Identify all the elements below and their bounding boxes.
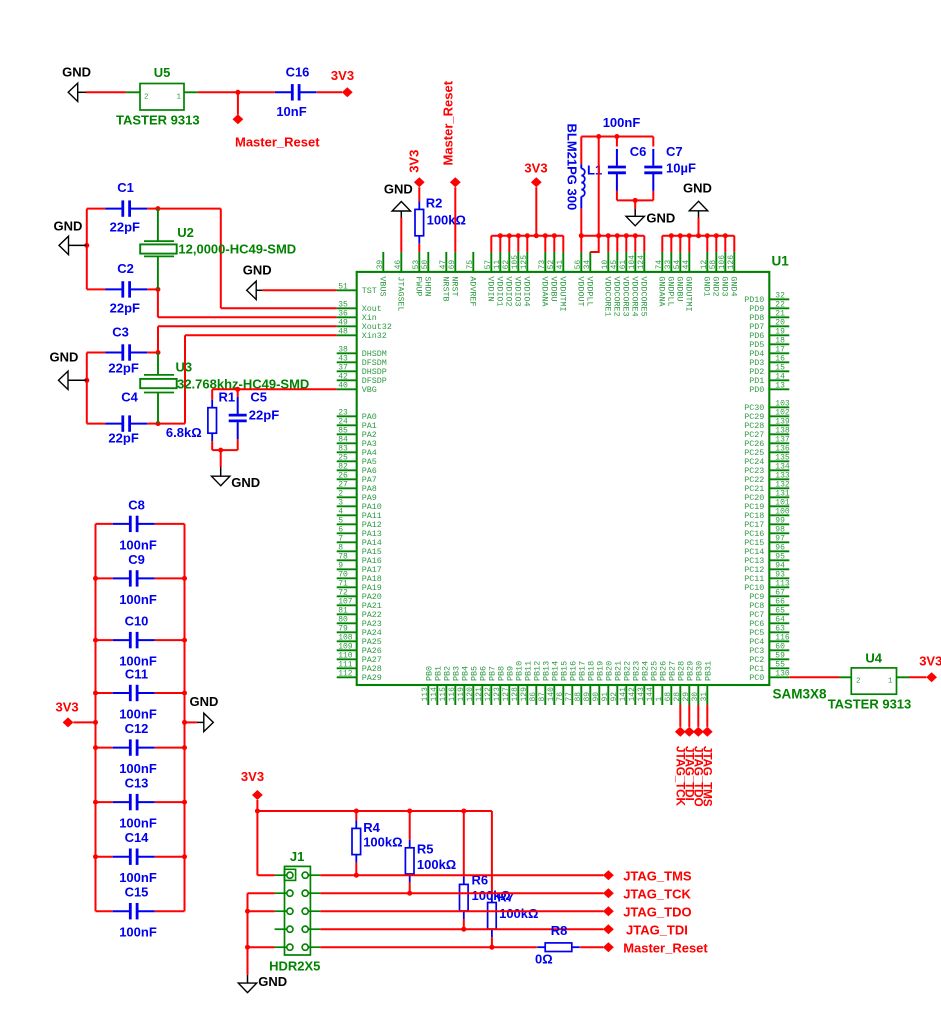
svg-text:11: 11 — [493, 260, 502, 270]
svg-text:36: 36 — [338, 309, 348, 318]
svg-text:9: 9 — [338, 561, 343, 570]
svg-text:109: 109 — [338, 642, 353, 651]
svg-text:58: 58 — [709, 260, 718, 270]
svg-text:88: 88 — [574, 692, 583, 702]
svg-text:102: 102 — [775, 408, 790, 417]
svg-text:100kΩ: 100kΩ — [363, 835, 402, 850]
svg-text:32: 32 — [775, 291, 785, 300]
svg-text:31: 31 — [700, 692, 709, 702]
svg-text:84: 84 — [338, 435, 348, 444]
svg-text:R4: R4 — [363, 820, 380, 835]
svg-text:53: 53 — [412, 260, 421, 270]
svg-text:103: 103 — [775, 399, 790, 408]
svg-text:107: 107 — [338, 597, 353, 606]
svg-text:35: 35 — [338, 300, 348, 309]
svg-text:GND3: GND3 — [720, 276, 730, 296]
svg-text:71: 71 — [338, 579, 348, 588]
svg-text:111: 111 — [338, 660, 353, 669]
svg-text:VDDIN: VDDIN — [486, 276, 496, 301]
svg-text:C5: C5 — [250, 390, 267, 405]
svg-text:JTAG_TMS: JTAG_TMS — [700, 746, 714, 807]
svg-text:C16: C16 — [286, 64, 310, 79]
svg-text:VDDCORE1: VDDCORE1 — [603, 276, 613, 316]
svg-text:34: 34 — [583, 260, 592, 270]
svg-text:U5: U5 — [154, 65, 171, 80]
svg-text:39: 39 — [376, 260, 385, 270]
svg-text:100nF: 100nF — [119, 925, 157, 940]
svg-text:89: 89 — [583, 692, 592, 702]
svg-text:37: 37 — [338, 363, 348, 372]
svg-text:R8: R8 — [551, 923, 568, 938]
svg-text:93: 93 — [775, 570, 785, 579]
svg-text:21: 21 — [775, 309, 785, 318]
svg-text:GND4: GND4 — [729, 276, 739, 296]
svg-text:3V3: 3V3 — [56, 700, 79, 715]
svg-text:100nF: 100nF — [603, 115, 641, 130]
svg-text:R2: R2 — [426, 196, 443, 211]
svg-text:59: 59 — [775, 651, 785, 660]
svg-text:6.8kΩ: 6.8kΩ — [166, 425, 202, 440]
svg-text:Master_Reset: Master_Reset — [623, 940, 708, 955]
svg-text:112: 112 — [338, 669, 353, 678]
svg-text:45: 45 — [610, 260, 619, 270]
svg-text:78: 78 — [338, 552, 348, 561]
svg-text:80: 80 — [338, 615, 348, 624]
svg-text:C1: C1 — [117, 180, 134, 195]
svg-text:43: 43 — [338, 354, 348, 363]
svg-text:C14: C14 — [125, 830, 150, 845]
svg-text:96: 96 — [775, 543, 785, 552]
svg-text:100nF: 100nF — [119, 537, 157, 552]
svg-text:50: 50 — [421, 260, 430, 270]
svg-text:10: 10 — [601, 260, 610, 270]
svg-text:68: 68 — [664, 692, 673, 702]
svg-text:GND2: GND2 — [711, 276, 721, 296]
svg-text:51: 51 — [338, 282, 348, 291]
svg-text:29: 29 — [682, 692, 691, 702]
svg-text:25: 25 — [338, 453, 348, 462]
svg-text:120: 120 — [466, 687, 475, 702]
svg-text:135: 135 — [775, 453, 790, 462]
svg-text:38: 38 — [338, 345, 348, 354]
svg-text:20: 20 — [775, 318, 785, 327]
svg-text:94: 94 — [775, 561, 785, 570]
svg-text:PB31: PB31 — [704, 661, 714, 681]
svg-text:10nF: 10nF — [276, 104, 306, 119]
svg-text:2: 2 — [338, 489, 343, 498]
svg-text:3V3: 3V3 — [241, 769, 264, 784]
svg-text:5: 5 — [338, 516, 343, 525]
svg-text:TASTER 9313: TASTER 9313 — [116, 113, 200, 128]
svg-text:VDDIO2: VDDIO2 — [504, 276, 514, 306]
svg-text:3V3: 3V3 — [919, 654, 941, 669]
svg-text:JTAG_TMS: JTAG_TMS — [623, 868, 692, 883]
svg-text:C6: C6 — [630, 144, 647, 159]
svg-text:30: 30 — [691, 692, 700, 702]
svg-text:130: 130 — [775, 669, 790, 678]
svg-text:C15: C15 — [125, 885, 149, 900]
svg-text:133: 133 — [775, 471, 790, 480]
svg-text:12,0000-HC49-SMD: 12,0000-HC49-SMD — [178, 241, 296, 256]
svg-text:131: 131 — [775, 489, 790, 498]
svg-text:134: 134 — [775, 462, 790, 471]
svg-text:22pF: 22pF — [110, 220, 140, 235]
svg-text:26: 26 — [338, 471, 348, 480]
svg-text:124: 124 — [637, 255, 646, 270]
svg-text:121: 121 — [475, 687, 484, 702]
svg-text:81: 81 — [338, 606, 348, 615]
svg-text:64: 64 — [775, 615, 785, 624]
svg-text:GND: GND — [62, 65, 91, 80]
svg-text:GNDBU: GNDBU — [675, 276, 685, 301]
svg-text:46: 46 — [394, 260, 403, 270]
svg-text:49: 49 — [338, 318, 348, 327]
svg-text:52: 52 — [547, 260, 556, 270]
svg-text:PD0: PD0 — [749, 385, 764, 395]
svg-text:125: 125 — [520, 255, 529, 270]
svg-text:2: 2 — [856, 678, 861, 686]
svg-text:110: 110 — [338, 651, 353, 660]
svg-text:65: 65 — [775, 606, 785, 615]
svg-text:U2: U2 — [177, 225, 194, 240]
svg-text:16: 16 — [775, 354, 785, 363]
svg-text:100nF: 100nF — [119, 706, 157, 721]
svg-text:28: 28 — [673, 692, 682, 702]
svg-text:143: 143 — [637, 687, 646, 702]
svg-text:GND1: GND1 — [702, 276, 712, 296]
svg-text:14: 14 — [775, 372, 785, 381]
svg-text:PC0: PC0 — [749, 673, 764, 683]
svg-text:GNDUTMI: GNDUTMI — [684, 276, 694, 311]
svg-text:142: 142 — [628, 687, 637, 702]
svg-text:VDDOUT: VDDOUT — [576, 276, 586, 306]
svg-text:VBUS: VBUS — [378, 276, 388, 296]
svg-text:U4: U4 — [865, 651, 882, 666]
svg-text:132: 132 — [775, 480, 790, 489]
svg-text:62: 62 — [502, 260, 511, 270]
svg-text:18: 18 — [775, 336, 785, 345]
svg-text:C10: C10 — [125, 614, 149, 629]
svg-text:C9: C9 — [128, 552, 145, 567]
svg-text:GNDANA: GNDANA — [657, 276, 667, 307]
svg-text:GNDPLL: GNDPLL — [666, 276, 676, 306]
svg-text:123: 123 — [493, 687, 502, 702]
svg-text:40: 40 — [338, 381, 348, 390]
svg-text:GND: GND — [683, 180, 712, 195]
svg-text:128: 128 — [511, 687, 520, 702]
svg-text:60: 60 — [775, 642, 785, 651]
svg-text:C13: C13 — [125, 776, 149, 791]
svg-text:63: 63 — [775, 624, 785, 633]
svg-text:137: 137 — [775, 435, 790, 444]
svg-text:JTAG_TCK: JTAG_TCK — [623, 886, 691, 901]
svg-text:VDDCORE2: VDDCORE2 — [612, 276, 622, 316]
svg-text:GND: GND — [243, 263, 272, 278]
svg-text:2: 2 — [144, 93, 149, 101]
svg-text:22pF: 22pF — [108, 361, 138, 376]
svg-text:7: 7 — [338, 534, 343, 543]
svg-text:24: 24 — [338, 417, 348, 426]
svg-text:3V3: 3V3 — [524, 161, 547, 176]
svg-text:Master_Reset: Master_Reset — [235, 135, 320, 150]
svg-text:141: 141 — [619, 687, 628, 702]
svg-text:115: 115 — [439, 687, 448, 702]
svg-text:22: 22 — [775, 300, 785, 309]
svg-text:126: 126 — [727, 255, 736, 270]
svg-text:74: 74 — [655, 260, 664, 270]
svg-text:90: 90 — [592, 692, 601, 702]
svg-text:TST: TST — [362, 286, 377, 296]
svg-text:104: 104 — [628, 255, 637, 270]
svg-text:100: 100 — [775, 507, 790, 516]
svg-text:44: 44 — [682, 260, 691, 270]
svg-text:119: 119 — [457, 687, 466, 702]
svg-text:67: 67 — [775, 588, 785, 597]
svg-text:C3: C3 — [112, 325, 129, 340]
svg-text:66: 66 — [775, 597, 785, 606]
svg-text:86: 86 — [529, 692, 538, 702]
svg-text:C11: C11 — [125, 667, 148, 682]
svg-text:12: 12 — [700, 260, 709, 270]
svg-text:R7: R7 — [497, 889, 514, 904]
svg-text:TASTER 9313: TASTER 9313 — [828, 697, 912, 712]
svg-text:33: 33 — [664, 260, 673, 270]
svg-text:VDDANA: VDDANA — [540, 276, 550, 307]
svg-text:101: 101 — [775, 498, 790, 507]
svg-text:6: 6 — [338, 525, 343, 534]
svg-text:15: 15 — [775, 363, 785, 372]
svg-text:C12: C12 — [125, 721, 149, 736]
svg-text:VDDBU: VDDBU — [549, 276, 559, 301]
svg-text:83: 83 — [338, 444, 348, 453]
svg-text:FWUP: FWUP — [414, 276, 424, 296]
svg-text:VDDUTMI: VDDUTMI — [558, 276, 568, 311]
svg-text:Master_Reset: Master_Reset — [440, 80, 455, 165]
svg-text:0Ω: 0Ω — [535, 952, 553, 967]
svg-text:Xin32: Xin32 — [362, 331, 387, 341]
svg-text:SHDN: SHDN — [423, 276, 433, 296]
svg-text:GND: GND — [231, 475, 260, 490]
svg-text:ADVREF: ADVREF — [468, 276, 478, 306]
svg-text:100nF: 100nF — [119, 761, 157, 776]
svg-text:27: 27 — [338, 480, 348, 489]
svg-text:129: 129 — [520, 687, 529, 702]
svg-text:98: 98 — [775, 525, 785, 534]
svg-text:92: 92 — [610, 692, 619, 702]
svg-text:VDDIO4: VDDIO4 — [522, 276, 532, 306]
svg-text:61: 61 — [619, 260, 628, 270]
svg-text:4: 4 — [338, 507, 343, 516]
svg-text:75: 75 — [466, 260, 475, 270]
svg-text:R1: R1 — [219, 390, 236, 405]
svg-text:L1: L1 — [587, 163, 602, 178]
svg-text:R5: R5 — [417, 842, 434, 857]
svg-text:95: 95 — [775, 552, 785, 561]
svg-text:13: 13 — [775, 381, 785, 390]
svg-text:56: 56 — [574, 260, 583, 270]
svg-text:1: 1 — [655, 697, 664, 702]
svg-text:55: 55 — [775, 660, 785, 669]
svg-text:100nF: 100nF — [119, 816, 157, 831]
svg-text:108: 108 — [338, 633, 353, 642]
svg-text:GND: GND — [646, 211, 675, 226]
svg-text:116: 116 — [448, 687, 457, 702]
svg-text:106: 106 — [718, 255, 727, 270]
svg-text:GND: GND — [190, 694, 219, 709]
svg-text:105: 105 — [511, 255, 520, 270]
svg-text:1: 1 — [888, 678, 893, 686]
svg-text:77: 77 — [565, 692, 574, 702]
svg-text:8: 8 — [338, 543, 343, 552]
svg-text:VDDCORE3: VDDCORE3 — [621, 276, 631, 316]
svg-text:48: 48 — [338, 327, 348, 336]
svg-text:GND: GND — [384, 182, 413, 197]
svg-text:VDDIO3: VDDIO3 — [513, 276, 523, 306]
svg-text:22pF: 22pF — [110, 301, 140, 316]
svg-text:19: 19 — [775, 327, 785, 336]
svg-text:114: 114 — [430, 687, 439, 702]
svg-text:47: 47 — [439, 260, 448, 270]
svg-text:VDDCORE5: VDDCORE5 — [639, 276, 649, 316]
svg-text:C7: C7 — [666, 144, 683, 159]
svg-text:144: 144 — [646, 687, 655, 702]
svg-text:C4: C4 — [121, 390, 138, 405]
svg-text:113: 113 — [421, 687, 430, 702]
svg-text:91: 91 — [601, 692, 610, 702]
svg-text:HDR2X5: HDR2X5 — [269, 959, 320, 974]
svg-text:54: 54 — [673, 260, 682, 270]
svg-text:U3: U3 — [176, 360, 193, 375]
svg-text:SAM3X8: SAM3X8 — [773, 687, 828, 702]
svg-text:100kΩ: 100kΩ — [427, 213, 466, 228]
svg-text:116: 116 — [775, 633, 790, 642]
svg-text:138: 138 — [775, 426, 790, 435]
svg-text:GND: GND — [49, 350, 78, 365]
svg-text:41: 41 — [556, 260, 565, 270]
svg-text:J1: J1 — [290, 849, 304, 864]
svg-text:22pF: 22pF — [108, 431, 138, 446]
svg-text:127: 127 — [502, 687, 511, 702]
svg-text:JTAG_TDO: JTAG_TDO — [623, 904, 691, 919]
svg-text:76: 76 — [556, 692, 565, 702]
svg-text:BLM21PG 300: BLM21PG 300 — [565, 124, 580, 211]
svg-text:NRSTB: NRSTB — [441, 276, 451, 301]
svg-text:JTAG_TDI: JTAG_TDI — [626, 922, 688, 937]
svg-text:100nF: 100nF — [119, 870, 157, 885]
svg-text:3V3: 3V3 — [406, 150, 421, 173]
svg-text:85: 85 — [338, 426, 348, 435]
svg-text:10µF: 10µF — [666, 161, 696, 176]
svg-text:NRST: NRST — [450, 276, 460, 296]
svg-text:C2: C2 — [117, 261, 134, 276]
svg-text:VBG: VBG — [362, 385, 377, 395]
svg-text:1: 1 — [177, 93, 182, 101]
svg-text:42: 42 — [338, 372, 348, 381]
svg-text:140: 140 — [547, 687, 556, 702]
svg-text:72: 72 — [338, 588, 348, 597]
svg-text:122: 122 — [484, 687, 493, 702]
svg-text:82: 82 — [338, 462, 348, 471]
svg-text:22pF: 22pF — [249, 408, 279, 423]
svg-text:73: 73 — [538, 260, 547, 270]
svg-text:70: 70 — [338, 570, 348, 579]
svg-text:79: 79 — [338, 624, 348, 633]
svg-text:100kΩ: 100kΩ — [499, 906, 538, 921]
svg-text:87: 87 — [538, 692, 547, 702]
svg-text:C8: C8 — [128, 497, 145, 512]
svg-text:VDDCORE4: VDDCORE4 — [630, 276, 640, 316]
svg-text:JTAGSEL: JTAGSEL — [396, 276, 406, 311]
svg-text:GND: GND — [258, 974, 287, 989]
svg-text:3V3: 3V3 — [331, 68, 354, 83]
svg-text:23: 23 — [338, 408, 348, 417]
svg-text:VDDPLL: VDDPLL — [585, 276, 595, 306]
svg-text:100nF: 100nF — [119, 592, 157, 607]
svg-text:PA29: PA29 — [362, 673, 382, 683]
svg-text:17: 17 — [775, 345, 785, 354]
svg-text:69: 69 — [448, 260, 457, 270]
svg-text:136: 136 — [775, 444, 790, 453]
svg-text:GND: GND — [53, 219, 82, 234]
svg-text:3: 3 — [338, 498, 343, 507]
svg-text:99: 99 — [775, 516, 785, 525]
svg-text:139: 139 — [775, 417, 790, 426]
svg-text:97: 97 — [775, 534, 785, 543]
svg-text:113: 113 — [775, 579, 790, 588]
svg-text:57: 57 — [484, 260, 493, 270]
svg-text:100kΩ: 100kΩ — [417, 857, 456, 872]
svg-text:U1: U1 — [772, 254, 790, 269]
